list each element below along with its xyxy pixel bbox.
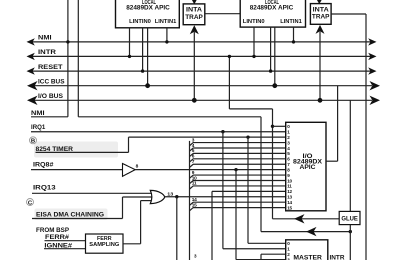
wire timer to I/O APIC input 2 [129,136,286,138]
junction U1-ICC [145,83,150,88]
wire ICC BUS [29,85,372,87]
junction IRQ13 branch [175,195,178,198]
wire U1 pin to RESET bus [142,28,144,71]
wire OR gate out to I/O APIC input 13 [165,196,286,198]
label highlight 8254 TIMER [34,142,118,158]
wire RESET bus [29,70,372,72]
wire CPU1 INTR vertical [77,0,79,117]
INTA trap 2 box [310,4,331,25]
arrowhead right ICC BUS [370,81,381,90]
wire INTR net bottom horizontal [261,231,350,233]
wire U2 pin to INTR bus [253,27,255,56]
wire timer branch down to master PIC pin 0 [247,137,249,243]
svg-text:RESET: RESET [38,64,63,71]
junction trap2-I/O bus [318,98,323,103]
arrowhead glue line [294,214,305,223]
buffer gate on IRQ8# [123,164,136,177]
junction trap1-I/O bus [192,98,197,103]
junction U1-RESET [141,69,144,72]
svg-text:LINTIN0: LINTIN0 [129,19,151,25]
svg-text:EISA DMA CHAINING: EISA DMA CHAINING [36,212,104,219]
arrowhead right RESET bus [368,67,376,74]
wire IRQ4 stub to I/O APIC input 4 [190,148,194,151]
svg-text:3: 3 [194,254,197,259]
svg-text:IRQ1: IRQ1 [31,124,46,131]
arrowhead left ICC BUS [27,81,38,90]
circled C callout [27,199,34,206]
junction glue net - input 0 [271,125,274,128]
junction U2-ICC [272,83,277,88]
svg-text:2: 2 [287,252,290,257]
arrowhead left NMI bus [27,38,35,45]
wire U2 pin to ICC bus [274,27,276,86]
wire master pin2 corner down [260,254,262,260]
svg-text:C: C [28,200,33,206]
wire INTA trap 1 output to U2 [205,13,240,15]
svg-text:MASTER: MASTER [293,254,322,260]
svg-text:I/O BUS: I/O BUS [38,93,63,100]
I/O APIC U3 box (I/O 82489DX APIC) [286,122,326,211]
wire IRQ bundle vertical [189,141,191,260]
svg-text:APIC: APIC [300,164,317,171]
svg-text:10: 10 [287,178,292,183]
wire I/O BUS [29,99,372,101]
junction U2-INTR [252,55,255,58]
local APIC U1 box (LOCAL 82489DX APIC) [116,0,180,28]
svg-text:INTR: INTR [330,254,346,260]
svg-text:12: 12 [287,189,292,194]
OR gate G1 [150,190,165,203]
wire right vertical rail [365,14,367,260]
wire IRQ13 branch down [176,197,178,260]
wire IRQ11 stub to I/O APIC input 11 [190,186,194,189]
svg-text:TRAP: TRAP [185,14,203,21]
svg-text:NMI: NMI [38,35,52,42]
wire 8254 TIMER output [36,151,129,153]
GLUE box [339,211,360,224]
arrowhead up INTA trap 1 [190,25,199,34]
arrowhead up INTA trap 2 [316,25,325,34]
svg-text:82489DX APIC: 82489DX APIC [250,4,294,11]
wire FERR sampling output [123,243,141,245]
wire U2 pin to RESET bus [270,27,272,71]
arrow into INTA trap 2 top [317,0,322,4]
wire master PIC pin 2 line [261,253,286,255]
svg-text:13: 13 [287,195,292,200]
svg-text:SAMPLING: SAMPLING [89,242,119,248]
svg-text:1: 1 [287,247,290,252]
wire IRQ9 stub to I/O APIC input 9 [190,175,194,178]
svg-text:14: 14 [192,197,197,203]
wire IRQ1 branch down to master PIC pin 1 [222,132,224,249]
wire CPU1 NMI vertical [67,0,69,117]
svg-text:LINTIN1: LINTIN1 [155,19,177,25]
wire IRQ15 stub to I/O APIC input 15 [190,208,194,211]
wire INTR bus branch down [228,56,230,109]
junction U1-INTR [128,55,131,58]
wire INTR net right vertical [260,117,262,232]
wire NMI bus [29,41,372,43]
wire ICC bus to I/O APIC [337,86,339,162]
svg-text:ICC BUS: ICC BUS [38,79,65,86]
wire IRQ7 stub to I/O APIC input 7 [190,164,194,167]
wire IRQ12 to I/O APIC input 12 [212,190,286,192]
wire INTR bus [29,55,372,57]
callout circle B [30,137,37,144]
svg-text:FROM BSP: FROM BSP [36,227,69,234]
master PIC box [286,240,328,260]
wire INTA trap 2 output to right rail [331,13,366,15]
svg-text:11: 11 [192,181,197,187]
wire IRQ5 stub to I/O APIC input 5 [190,153,194,156]
wire 8254 TIMER corner up [128,137,130,152]
arrowhead right NMI bus [368,38,376,45]
svg-text:IRQ8#: IRQ8# [33,162,54,169]
wire EISA DMA CHAINING line [32,218,123,220]
wire IRQ1 to I/O APIC input 1 [31,131,286,133]
arrowhead right INTR bus [368,53,376,60]
arrowhead right I/O BUS [370,96,381,105]
wire FERR output corner up to OR gate [140,201,142,244]
junction U2-NMI [292,40,295,43]
svg-text:INTR: INTR [38,49,57,56]
wire FERR# line [45,240,86,242]
wire glue net horizontal upper [229,108,272,110]
wire IRQ3 stub to I/O APIC input 3 [190,143,194,146]
svg-text:15: 15 [287,205,292,210]
wire buffer out to I/O APIC input 8 [135,169,286,171]
svg-text:11: 11 [287,184,292,189]
junction CPU1NMI-NMI bus [66,40,69,43]
arrowhead left RESET bus [27,67,35,74]
wire IRQ14 stub to I/O APIC input 14 [190,202,194,205]
svg-text:TRAP: TRAP [312,14,330,21]
label highlight EISA DMA CHAINING [35,209,108,221]
wire stub to I/O APIC input 0 [273,125,286,127]
junction timer branch [246,135,249,138]
arrowhead left I/O BUS [27,96,38,105]
svg-text:8: 8 [136,163,139,169]
wire IRQ8 branch down to master PIC pin 3 [235,170,237,260]
wire I/O bus to INTA trap 1 bottom [193,32,195,100]
svg-text:NMI: NMI [31,110,45,117]
wire glue output line [273,218,340,220]
arrowhead INTR net [306,227,317,236]
wire I/O bus to INTA trap 2 bottom [319,32,321,101]
wire IRQ12 corner down [211,191,213,260]
wire glue box bottom down [349,225,351,260]
junction U1-NMI [165,40,168,43]
svg-text:10: 10 [192,175,197,181]
wire glue net vertical [272,109,274,219]
wire U1 pin to INTR bus [129,28,131,57]
svg-text:0: 0 [287,241,290,246]
svg-text:15: 15 [192,202,197,208]
wire IRQ13 to OR gate [32,192,153,194]
INTA trap 1 box [183,4,205,25]
arrow into INTA trap 1 top [192,0,197,4]
junction U2-RESET [269,69,272,72]
wire U1 LINTIN1 to NMI bus [166,28,168,42]
svg-text:82489DX APIC: 82489DX APIC [126,4,170,11]
junction IRQ1 branch [221,130,224,133]
wire INTR net horizontal [78,116,261,118]
svg-text:INTA: INTA [186,7,203,14]
wire IGNNE# line [44,248,86,250]
wire EISA corner up to OR gate [122,197,124,219]
arrowhead left INTR bus [27,53,35,60]
junction INTR-glue rail [349,230,352,233]
wire NMI input line [31,116,68,118]
wire IRQ8# to inverter [31,169,123,171]
FERR sampling box [86,234,124,253]
svg-text:B: B [31,139,35,145]
junction INTRbus-glue [228,55,231,58]
local APIC U2 box (LOCAL 82489DX APIC) [240,0,305,27]
svg-text:IRQ13: IRQ13 [33,185,56,192]
junction IRQ8 branch [234,168,237,171]
wire I/O bus down to glue box [349,100,351,211]
svg-text:14: 14 [287,200,292,205]
wire IRQ10 stub to I/O APIC input 10 [190,181,194,184]
wire U1 pin to ICC bus [147,28,149,86]
wire IRQ6 stub to I/O APIC input 6 [190,159,194,162]
svg-text:GLUE: GLUE [341,216,358,222]
svg-text:INTA: INTA [313,6,330,13]
wire U2 LINTIN1 to NMI bus [293,27,295,42]
svg-text:LINTIN0: LINTIN0 [243,19,265,25]
svg-text:LINTIN1: LINTIN1 [280,19,302,25]
